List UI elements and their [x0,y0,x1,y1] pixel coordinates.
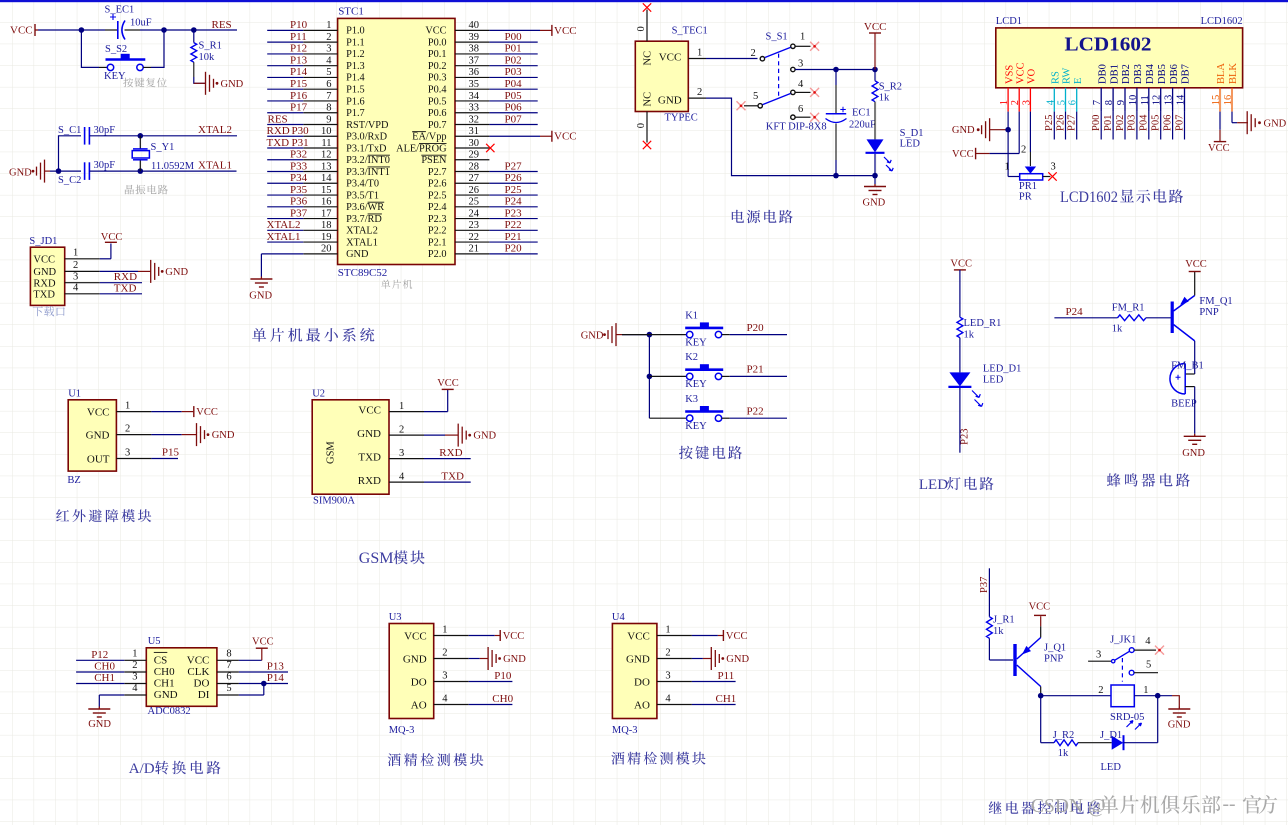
svg-text:PSEN: PSEN [421,155,447,166]
relay switch J_JK1 [1088,634,1158,681]
svg-text:J_JK1: J_JK1 [1110,634,1136,645]
svg-text:P27: P27 [505,160,523,172]
svg-text:10uF: 10uF [130,18,152,29]
svg-text:VCC: VCC [864,21,887,33]
LCD pin stubs and pin numbers [999,88,1234,112]
LCD module LCD1 LCD1602 body [996,16,1243,88]
svg-text:S_Y1: S_Y1 [151,142,175,153]
svg-text:16: 16 [1223,95,1234,106]
svg-text:P03: P03 [505,66,523,78]
svg-text:AO: AO [411,700,427,712]
no-connect X marks on switch [737,42,820,122]
junction [191,27,197,33]
svg-text:P13: P13 [290,54,308,66]
caption 酒精检测模块 (U4) [611,752,705,765]
caption GSM模块 [359,550,425,567]
svg-text:6: 6 [798,104,803,115]
svg-text:J_R2: J_R2 [1053,730,1075,741]
wire VCC to LCD pin2 [990,112,1020,154]
svg-text:P1.4: P1.4 [346,73,365,84]
no-connect X (pot pin3) [1048,172,1056,180]
wires LCD data pins [1054,112,1184,140]
wire U5 pin8 to VCC [239,648,262,660]
caption 单片机 [381,280,412,289]
capacitor S_C1 30pF [58,125,115,145]
svg-text:VCC: VCC [252,637,274,648]
svg-text:1k: 1k [1112,324,1123,335]
wire MCU pin31 to VCC [489,135,552,137]
svg-text:DI: DI [198,689,210,701]
svg-text:13: 13 [321,161,332,172]
wire [692,658,711,660]
wire J_R1 to base [989,638,1013,660]
svg-text:XTAL2: XTAL2 [346,226,378,237]
svg-text:P37: P37 [290,207,308,219]
svg-text:S_EC1: S_EC1 [105,5,135,16]
caption 红外避障模块 [56,509,151,522]
svg-text:3: 3 [798,58,803,69]
capacitor S_C2 30pF [58,160,115,186]
svg-text:P0.3: P0.3 [428,73,447,84]
wire U2 pin3 RXD [424,458,471,460]
power port VCC (pin31) [552,131,577,143]
power port VCC [723,630,747,642]
svg-text:P3.7/RD: P3.7/RD [346,214,382,225]
svg-text:RES: RES [212,19,232,31]
wire P24 to FM_R1 [1054,317,1117,319]
svg-text:1: 1 [999,100,1010,105]
resistor S_R2 1k [872,70,902,140]
svg-text:DB7: DB7 [1181,64,1192,84]
power port VCC (backlight) [1208,142,1230,154]
power port GND [488,647,526,670]
svg-text:P2.1: P2.1 [428,237,447,248]
svg-text:K1: K1 [685,310,698,321]
svg-text:1: 1 [125,400,130,411]
caption 电源电路 [732,210,793,223]
power port GND (keys) [581,323,622,346]
svg-text:15: 15 [321,185,332,196]
svg-text:RST/VPD: RST/VPD [346,120,389,131]
svg-text:VCC: VCC [187,655,210,667]
wire LCD pin3 VO to potentiometer wiper [1029,112,1031,166]
svg-text:14: 14 [321,173,332,184]
svg-text:P2.0: P2.0 [428,249,447,260]
svg-text:P2.3: P2.3 [428,214,447,225]
power port VCC (U2) [437,378,459,389]
svg-text:P36: P36 [290,196,308,208]
svg-text:4: 4 [442,693,448,704]
svg-text:P15: P15 [162,446,180,458]
svg-text:VCC: VCC [950,259,972,270]
svg-text:27: 27 [469,173,480,184]
net label P13 [267,661,285,673]
svg-text:P34: P34 [290,172,308,184]
svg-text:30pF: 30pF [94,160,116,171]
svg-text:P24: P24 [1066,306,1084,318]
wire U1 pin3 P15 [151,458,178,460]
svg-text:220uF: 220uF [849,120,876,131]
svg-text:P0.7: P0.7 [428,120,447,131]
wire J_R2 to J_D1 [1078,742,1112,744]
svg-text:VCC: VCC [358,404,381,416]
svg-text:2: 2 [125,423,130,434]
svg-text:OUT: OUT [87,454,110,466]
svg-text:CH0: CH0 [154,666,175,678]
svg-text:5: 5 [226,683,231,694]
net labels MCU right [505,31,523,255]
sheet top border [0,0,1288,2]
svg-text:E: E [1073,78,1084,84]
capacitor S_EC1 10uF [105,5,152,40]
svg-text:XTAL1: XTAL1 [346,237,378,248]
caption 按键电路 [679,446,742,460]
svg-text:LED: LED [1101,762,1122,773]
wire emitter to VCC [1194,272,1196,296]
wire GND trunk to keys [622,335,649,419]
net label TXD [114,282,137,294]
power port VCC (pin40) [552,25,577,37]
svg-text:14: 14 [1176,94,1187,105]
junction [647,332,653,379]
svg-text:5: 5 [326,67,331,78]
svg-text:0: 0 [636,26,647,31]
wire VCC to LED_R1 [959,270,961,317]
svg-text:3: 3 [442,670,447,681]
wire collector to buzzer [1185,341,1195,374]
svg-text:EC1: EC1 [852,108,871,119]
svg-text:4: 4 [1145,636,1151,647]
svg-text:P22: P22 [505,219,522,231]
power port VCC (relay) [1029,602,1051,616]
svg-text:FM_B1: FM_B1 [1171,360,1204,371]
svg-text:P07: P07 [1174,115,1185,131]
svg-text:GND: GND [473,431,496,442]
svg-text:VCC: VCC [1185,259,1207,270]
svg-text:4: 4 [1045,99,1056,105]
wire switch pin3 to VCC rail [795,69,875,71]
caption 酒精检测模块 (U3) [388,753,484,766]
svg-text:DO: DO [194,678,210,690]
svg-text:LED: LED [900,139,921,150]
svg-text:P10: P10 [494,670,512,682]
svg-text:S_C2: S_C2 [58,175,81,186]
svg-text:KEY: KEY [685,337,707,348]
svg-text:7: 7 [1092,100,1103,105]
svg-text:23: 23 [469,220,480,231]
svg-text:P0.5: P0.5 [428,96,447,107]
svg-text:P1.2: P1.2 [346,49,365,60]
svg-text:S_C1: S_C1 [58,125,81,136]
svg-text:11: 11 [1140,95,1151,105]
svg-text:GND: GND [1182,448,1205,459]
caption LCD1602显示电路 [1060,189,1183,206]
power port VCC (reset) [10,24,38,37]
svg-text:VCC: VCC [33,254,55,265]
svg-text:S_S1: S_S1 [766,32,788,43]
svg-text:VCC: VCC [1029,602,1051,613]
svg-text:P27: P27 [1067,115,1078,131]
svg-text:10: 10 [1128,95,1139,106]
svg-text:P26: P26 [505,172,523,184]
caption A/D转换电路 [129,761,221,777]
power ground (MCU) [249,277,272,302]
LED LED_D1 [948,364,1021,407]
caption 下载口 [33,306,65,316]
svg-text:P05: P05 [1151,115,1162,131]
svg-text:GND: GND [658,94,682,106]
wire U2 pin2 to GND [424,434,458,436]
power port VCC (LCD left) [952,148,990,160]
wire pin4 TXD [100,293,142,295]
svg-text:CH1: CH1 [94,672,115,684]
svg-text:2: 2 [1021,145,1026,156]
power port GND (U2) [458,424,496,447]
wire LCD pin1 VSS to pot pin1 [1008,112,1020,177]
LED S_D1 [866,128,924,176]
svg-text:P24: P24 [505,196,523,208]
svg-text:MQ-3: MQ-3 [389,725,415,736]
svg-text:DO: DO [634,677,650,689]
power ground (U5) [88,707,111,731]
svg-text:GND: GND [581,330,604,341]
net label CH0 [492,693,513,705]
svg-text:P30: P30 [292,125,310,137]
svg-text:4: 4 [73,283,79,294]
svg-text:TXD: TXD [267,137,290,149]
svg-text:12: 12 [1152,95,1163,106]
svg-text:S_D1: S_D1 [900,128,924,139]
svg-text:P11: P11 [718,670,735,682]
svg-text:VO: VO [1027,68,1038,84]
svg-text:1: 1 [1143,685,1148,696]
wire S_C1 to XTAL2 [89,135,237,137]
MCU pins and pin names [303,20,489,260]
svg-text:16: 16 [321,197,332,208]
wire resistor to GND [194,77,206,83]
svg-text:2: 2 [399,425,404,436]
svg-text:VCC: VCC [1208,143,1230,154]
svg-text:1k: 1k [1058,748,1069,759]
svg-text:TXD: TXD [114,282,137,294]
wire MCU pin40 to VCC [489,29,552,31]
wire collector to relay coil [1041,687,1111,696]
svg-text:7: 7 [226,660,231,671]
wires MCU left pins [267,30,303,242]
svg-text:GND: GND [726,654,749,665]
diode J_D1 LED [1100,730,1124,773]
svg-text:RW: RW [1062,68,1073,84]
no-connect X (pin30) [486,144,494,152]
svg-text:P0.2: P0.2 [428,61,447,72]
svg-text:P17: P17 [290,102,308,114]
svg-text:P23: P23 [505,207,523,219]
svg-text:P3.4/T0: P3.4/T0 [346,179,379,190]
svg-text:VCC: VCC [554,131,577,143]
net label P10 [494,670,512,682]
svg-text:P11: P11 [290,31,307,43]
svg-text:10k: 10k [199,52,216,63]
svg-text:4: 4 [665,693,671,704]
svg-text:TXD: TXD [358,451,381,463]
svg-text:S_JD1: S_JD1 [29,236,57,247]
svg-text:GSM: GSM [359,550,394,567]
svg-text:P12: P12 [290,43,307,55]
svg-text:21: 21 [469,244,480,255]
svg-text:SRD-05: SRD-05 [1110,712,1144,723]
wire FM_R1 to base [1146,317,1171,319]
wire pin3 RXD [100,282,142,284]
svg-text:A/D: A/D [129,761,155,777]
svg-text:DB2: DB2 [1121,64,1132,84]
svg-text:CH1: CH1 [154,678,175,690]
svg-text:LED_R1: LED_R1 [964,318,1002,329]
wire emitter to VCC (relay) [1040,616,1042,637]
svg-text:10: 10 [321,126,332,137]
wire U1 pin1 to VCC [151,411,193,413]
svg-text:CH0: CH0 [492,693,513,705]
junction [1038,693,1044,699]
svg-text:VCC: VCC [101,232,123,243]
svg-text:12: 12 [321,150,332,161]
wire U2 pin1 to VCC [424,389,448,411]
svg-text:GND: GND [403,654,427,666]
svg-text:VCC: VCC [503,631,525,642]
svg-text:XTAL2: XTAL2 [198,124,232,136]
svg-text:2: 2 [1010,100,1021,105]
pin 0 bottom with no-connect X [636,112,651,150]
svg-text:3: 3 [665,670,670,681]
power port VCC (download) [101,232,123,243]
net label XTAL1 [198,160,232,172]
svg-text:BLK: BLK [1228,63,1239,84]
module U1 BZ body [67,389,151,487]
wire LCD pin15 to VCC [1219,112,1221,142]
module U2 SIM900A body [312,389,424,507]
svg-text:33: 33 [469,103,480,114]
transistor J_Q1 PNP [1015,638,1066,687]
caption 继电器控制电路 [989,801,1101,814]
svg-text:1: 1 [326,20,331,31]
caption 单片机最小系统 [252,328,374,342]
svg-text:P33: P33 [290,160,308,172]
svg-text:36: 36 [469,67,480,78]
svg-text:3: 3 [1021,100,1032,105]
svg-text:GND: GND [357,428,381,440]
svg-text:1: 1 [442,624,447,635]
svg-text:VCC: VCC [952,149,974,160]
svg-text:XTAL1: XTAL1 [198,160,232,172]
net label P37 (rotated) [979,577,990,593]
svg-text:LCD1602: LCD1602 [1060,189,1118,206]
svg-text:40: 40 [469,20,480,31]
svg-text:P2.7: P2.7 [428,167,447,178]
svg-text:GND: GND [1264,118,1287,129]
svg-text:BLA: BLA [1216,63,1227,84]
svg-text:37: 37 [469,55,480,66]
svg-text:P0.6: P0.6 [428,108,447,119]
sensor U4 MQ-3 body [612,612,692,736]
svg-text:U4: U4 [612,612,626,623]
resistor J_R2 1k [1053,730,1078,759]
svg-text:SIM900A: SIM900A [313,496,355,507]
svg-text:FM_R1: FM_R1 [1112,303,1145,314]
svg-text:GND: GND [88,719,111,730]
svg-text:P35: P35 [290,184,308,196]
svg-text:GND: GND [221,79,244,90]
wires MCU right pins [489,42,537,254]
svg-text:CH1: CH1 [716,693,737,705]
svg-text:30: 30 [469,138,480,149]
svg-text:2: 2 [326,32,331,43]
svg-text:GND: GND [503,654,526,665]
power port VCC (power circuit) [864,21,887,70]
svg-text:LED: LED [983,375,1004,386]
wire [692,635,724,637]
svg-text:P00: P00 [1091,115,1102,131]
power port VCC (U1) [194,406,218,418]
wire VCC to cap S_EC1 [38,29,117,31]
svg-text:DB3: DB3 [1133,64,1144,84]
svg-text:3: 3 [132,672,137,683]
wire U2 pin4 TXD [424,481,471,483]
svg-text:20: 20 [321,244,332,255]
svg-text:VCC: VCC [196,407,218,418]
svg-text:STC89C52: STC89C52 [338,267,388,279]
resistor S_R1 10k [191,30,222,77]
svg-text:XTAL1: XTAL1 [267,231,301,243]
svg-text:2: 2 [132,660,137,671]
wire LED_R1 to LED_D1 [959,338,961,373]
svg-text:ADC0832: ADC0832 [148,706,191,717]
svg-text:P3.1/TxD: P3.1/TxD [346,143,387,154]
svg-text:9: 9 [326,114,331,125]
svg-text:XTAL2: XTAL2 [267,219,301,231]
svg-text:P23: P23 [959,429,970,445]
svg-text:NC: NC [643,92,654,107]
svg-text:P31: P31 [292,137,309,149]
svg-text:25: 25 [469,197,480,208]
svg-text:34: 34 [469,91,480,102]
resistor J_R1 1k [987,615,1015,639]
svg-text:P3.5/T1: P3.5/T1 [346,190,379,201]
svg-text:1: 1 [697,48,702,59]
svg-text:DO: DO [411,677,427,689]
caption 按键复位 [123,78,166,88]
pushbutton S_S2 KEY [81,30,164,82]
svg-text:VCC: VCC [627,631,650,643]
svg-text:GND: GND [626,654,650,666]
svg-text:5: 5 [1057,100,1068,105]
junction [261,681,267,687]
svg-text:15: 15 [1211,95,1222,106]
wire [469,681,513,683]
svg-text:J_R1: J_R1 [993,615,1015,626]
power port GND (crystal) [9,160,50,183]
svg-text:VCC: VCC [404,631,427,643]
svg-text:DB6: DB6 [1169,64,1180,84]
svg-text:1k: 1k [993,626,1004,637]
svg-text:P13: P13 [267,661,285,673]
net label CH0 [94,661,115,673]
svg-text:P22: P22 [747,406,764,418]
pin 0 top with no-connect X [636,3,651,41]
svg-text:P12: P12 [91,649,108,661]
svg-text:8: 8 [226,648,231,659]
wire buzzer to GND [1194,387,1196,434]
svg-text:P00: P00 [505,31,523,43]
wire pin2 GND routing [688,87,875,176]
